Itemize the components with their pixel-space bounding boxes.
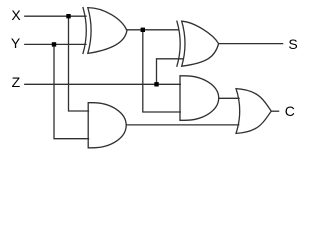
junction on X line <box>66 14 70 18</box>
xor gate U2 input arc <box>177 21 180 66</box>
xor gate U2 body <box>182 21 219 66</box>
junction on Z line <box>154 82 158 86</box>
wire S output <box>219 43 283 45</box>
svg-text:Y: Y <box>11 35 21 51</box>
wire C output <box>272 110 279 112</box>
wire Z input to AND1 top input <box>25 83 181 85</box>
wire XOR1-output branch to AND1 bottom input <box>143 30 181 112</box>
and gate U3 <box>180 76 219 121</box>
and gate U4 <box>88 103 126 148</box>
svg-text:S: S <box>288 36 297 52</box>
xor gate U1 input arc <box>83 8 86 54</box>
wire Y branch to AND2 bottom input <box>54 44 89 138</box>
svg-text:X: X <box>11 7 21 23</box>
wire AND2 output to OR bottom input <box>126 124 239 126</box>
wire X branch to AND2 top input <box>69 16 89 111</box>
wire AND1 output to OR top input <box>219 97 239 99</box>
wire Y input <box>25 43 86 45</box>
wire X input <box>25 15 86 17</box>
svg-text:Z: Z <box>12 74 21 90</box>
xor gate U1 body <box>88 8 127 54</box>
junction on Y line <box>52 42 56 46</box>
wire XOR1 output to XOR2 top input <box>127 29 179 31</box>
svg-text:C: C <box>285 103 295 119</box>
junction on XOR1 output <box>141 28 145 32</box>
wire Z branch up to XOR2 bottom input <box>157 59 183 85</box>
or gate U5 <box>236 89 271 134</box>
